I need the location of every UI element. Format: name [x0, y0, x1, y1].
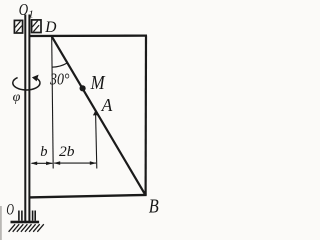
dimension 2b (arrow between D projection and A projection) — [54, 161, 97, 165]
svg-text:O: O — [19, 0, 28, 19]
scan edge artifact bottom-left — [0, 206, 2, 240]
frame top edge — [29, 34, 147, 37]
frame right edge — [145, 36, 148, 196]
svg-text:D: D — [44, 19, 56, 36]
svg-text:1: 1 — [28, 8, 34, 20]
point A marker (small arrowhead on diagonal) — [93, 111, 98, 116]
point M (dot on diagonal) — [80, 85, 86, 91]
rotation arrow phi (curved arrow around shaft) — [13, 75, 40, 90]
ground hatching — [9, 224, 44, 232]
bearing block left (top support, hatched) — [14, 20, 22, 33]
bearing block right (top support, hatched) — [32, 20, 41, 33]
svg-text:30°: 30° — [49, 69, 69, 88]
svg-text:2b: 2b — [59, 144, 75, 160]
shaft O1-O (vertical axis, double line) — [25, 15, 29, 222]
svg-text:O: O — [6, 202, 14, 219]
svg-text:b: b — [40, 144, 47, 160]
dimension b (arrow between shaft and D projection) — [31, 162, 53, 166]
svg-text:M: M — [90, 72, 106, 94]
angle arc 30 deg at D — [52, 63, 68, 67]
frame bottom edge — [29, 195, 147, 198]
bottom bearing ticks — [19, 211, 35, 221]
diagonal line D-B — [52, 36, 146, 195]
extension line below D (projection of D) — [52, 37, 54, 169]
svg-text:B: B — [149, 196, 159, 218]
svg-text:A: A — [101, 95, 113, 115]
extension line below A — [96, 114, 97, 169]
svg-text:φ: φ — [13, 90, 21, 105]
ground line — [11, 221, 40, 224]
